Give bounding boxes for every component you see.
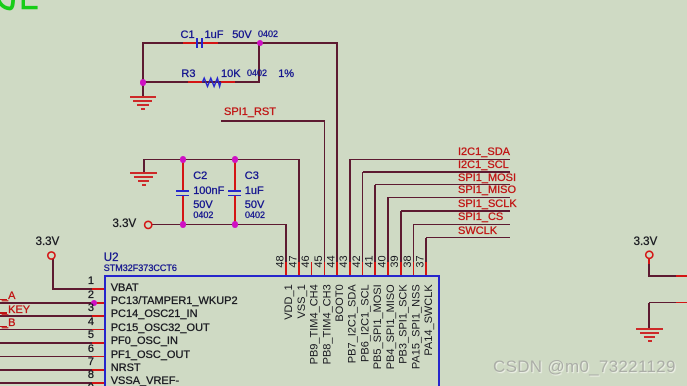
svg-text:PB8_TIM4_CH3: PB8_TIM4_CH3	[321, 284, 333, 364]
svg-text:PB5_SPI1_MOSI: PB5_SPI1_MOSI	[372, 284, 384, 369]
svg-text:PB9_TIM4_CH4: PB9_TIM4_CH4	[309, 284, 321, 364]
svg-text:37: 37	[415, 255, 427, 267]
svg-text:44: 44	[326, 255, 338, 267]
svg-text:PA15_SPI1_NSS: PA15_SPI1_NSS	[410, 284, 422, 369]
svg-text:PB6_I2C1_SCL: PB6_I2C1_SCL	[359, 284, 371, 362]
svg-text:39: 39	[389, 255, 401, 267]
svg-text:48: 48	[275, 255, 287, 267]
svg-text:45: 45	[313, 255, 325, 267]
svg-text:42: 42	[351, 255, 363, 267]
svg-text:46: 46	[300, 255, 312, 267]
svg-text:VSS_1: VSS_1	[296, 284, 308, 318]
svg-text:43: 43	[338, 255, 350, 267]
svg-text:PA14_SWCLK: PA14_SWCLK	[423, 284, 435, 356]
svg-text:PB7_I2C1_SDA: PB7_I2C1_SDA	[347, 284, 359, 364]
svg-text:PB4_SPI1_MISO: PB4_SPI1_MISO	[385, 284, 397, 369]
svg-text:41: 41	[364, 255, 376, 267]
svg-text:40: 40	[376, 255, 388, 267]
svg-text:BOOT0: BOOT0	[334, 284, 346, 321]
svg-text:VDD_1: VDD_1	[283, 284, 295, 319]
svg-text:PB3_SPI1_SCK: PB3_SPI1_SCK	[398, 284, 410, 364]
svg-text:47: 47	[287, 255, 299, 267]
svg-text:38: 38	[402, 255, 414, 267]
